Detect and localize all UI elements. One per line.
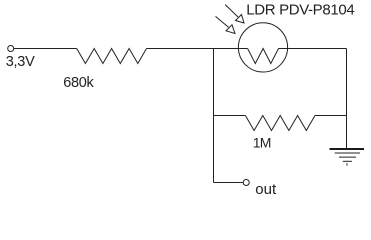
- svg-text:LDR PDV-P8104: LDR PDV-P8104: [246, 1, 354, 18]
- wire from junction to resistor 1M: [214, 115, 246, 117]
- wire from 3,3V terminal to resistor 680k: [14, 48, 77, 50]
- wire right vertical rail down to ground: [346, 49, 348, 149]
- wire bottom from left rail corner to out terminal: [214, 182, 244, 184]
- value label 680k: [63, 75, 94, 91]
- svg-text:680k: 680k: [63, 75, 94, 91]
- wire from LDR to right rail: [279, 48, 347, 50]
- node 3,3V input terminal: [8, 46, 14, 52]
- svg-text:1M: 1M: [253, 135, 271, 151]
- wire from resistor 680k to LDR: [147, 48, 248, 50]
- resistor R1 680k: [77, 49, 147, 64]
- resistor R2 1M: [245, 116, 315, 131]
- LDR photoresistor U1 PDV-P8104: [238, 23, 287, 72]
- light arrow 2 of LDR: [216, 16, 236, 33]
- label 3,3V: [6, 54, 35, 70]
- svg-text:out: out: [255, 181, 277, 198]
- value label 1M: [253, 135, 271, 151]
- svg-text:3,3V: 3,3V: [6, 54, 35, 70]
- ground symbol: [330, 149, 365, 166]
- wire vertical from junction down to out corner: [213, 49, 215, 183]
- label LDR PDV-P8104: [246, 1, 354, 18]
- label out: [255, 181, 277, 198]
- wire from resistor 1M to right rail: [315, 115, 347, 117]
- light arrow 1 of LDR: [225, 5, 244, 23]
- node out terminal: [243, 180, 249, 186]
